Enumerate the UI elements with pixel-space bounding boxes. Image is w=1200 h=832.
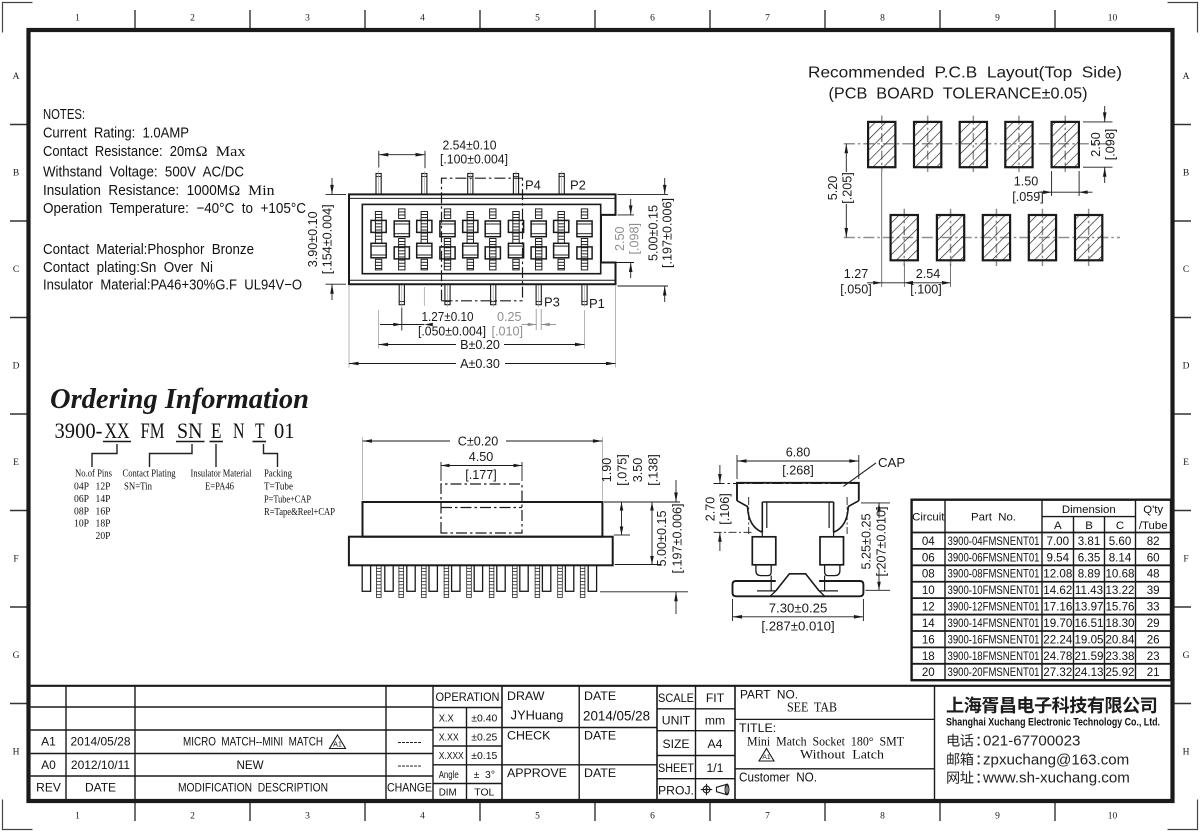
- svg-text:SN: SN: [177, 418, 203, 443]
- body wall lines: [350, 197, 615, 199]
- svg-text:[.268]: [.268]: [782, 463, 814, 477]
- svg-text:[.075]: [.075]: [616, 454, 630, 486]
- svg-text:3.50: 3.50: [631, 458, 645, 483]
- svg-text:3: 3: [305, 14, 310, 24]
- svg-text:A1: A1: [762, 754, 771, 761]
- part number code line: [55, 418, 295, 443]
- svg-text:9: 9: [995, 14, 1000, 24]
- svg-text:[.050±0.004]: [.050±0.004]: [418, 324, 486, 338]
- svg-text:04P: 04P: [74, 481, 89, 493]
- svg-text:C: C: [13, 265, 19, 275]
- svg-text:6: 6: [650, 14, 655, 24]
- underlines under XX SN E T: [103, 441, 131, 443]
- svg-text:[.059]: [.059]: [1012, 190, 1044, 204]
- svg-text:2014/05/28: 2014/05/28: [583, 709, 650, 724]
- svg-text:X.X: X.X: [439, 714, 454, 725]
- svg-text:13.97: 13.97: [1074, 601, 1103, 614]
- svg-text:[.197±0.006]: [.197±0.006]: [671, 504, 685, 574]
- svg-text:NOTES:: NOTES:: [43, 107, 85, 123]
- svg-text:16P: 16P: [96, 505, 111, 517]
- svg-text:12: 12: [922, 601, 935, 614]
- svg-text:Recommended P.C.B Layout(Top: Recommended P.C.B Layout(Top Side): [808, 65, 1122, 82]
- svg-text:1.50: 1.50: [1014, 175, 1039, 189]
- svg-text:2.50: 2.50: [613, 226, 627, 251]
- svg-text:33: 33: [1147, 601, 1160, 614]
- svg-text:17.16: 17.16: [1043, 601, 1072, 614]
- svg-text:SEE TAB: SEE TAB: [787, 700, 837, 715]
- front view lower base: [349, 537, 613, 566]
- svg-text:PROJ.: PROJ.: [658, 784, 694, 798]
- svg-text:C±0.20: C±0.20: [458, 434, 499, 448]
- dim 1.50 pad width: [1051, 171, 1053, 196]
- table horizontals: [1042, 516, 1136, 518]
- svg-text:[.098]: [.098]: [628, 223, 642, 255]
- contact lines: [948, 734, 960, 747]
- svg-text:3900-06FMSNENT01: 3900-06FMSNENT01: [948, 551, 1040, 564]
- dim 1.27 (bottom pin offset): [401, 308, 403, 331]
- svg-text:[.010]: [.010]: [492, 324, 524, 338]
- dim 1.90 / 3.50 (right of front view): [604, 501, 680, 503]
- svg-text:------: ------: [398, 735, 422, 749]
- contact columns: ladder pins, cross boxes and spool boxes: [371, 212, 386, 270]
- svg-text:9: 9: [995, 812, 1000, 822]
- svg-text:Insulation Resistance: 1000M: Insulation Resistance: 1000M: [43, 183, 228, 199]
- svg-text:10: 10: [1108, 812, 1118, 822]
- svg-text:DIM: DIM: [439, 788, 457, 799]
- cap centerline dash-dot: [714, 483, 859, 485]
- svg-text:23: 23: [1147, 650, 1160, 663]
- dim 2.54 pad pitch: [950, 264, 952, 287]
- dim 5.00 (right, overall body height): [618, 193, 669, 195]
- leader lines from code to legend: [92, 444, 117, 467]
- svg-text:08P: 08P: [74, 505, 89, 517]
- svg-text:[.207±0.010]: [.207±0.010]: [875, 507, 889, 577]
- svg-text:G: G: [1183, 651, 1190, 661]
- svg-text:3.90±0.10: 3.90±0.10: [306, 211, 320, 267]
- svg-text:CHECK: CHECK: [507, 729, 551, 743]
- svg-text:Contact Material:Phosphor Br: Contact Material:Phosphor Bronze: [43, 242, 254, 258]
- svg-text:12.08: 12.08: [1043, 568, 1072, 581]
- svg-text:No.of Pins: No.of Pins: [75, 468, 112, 480]
- svg-text:Without Latch: Without Latch: [800, 747, 885, 762]
- front view upper body: [363, 502, 603, 537]
- svg-text:021-67700023: 021-67700023: [983, 733, 1080, 750]
- svg-text:3900-14FMSNENT01: 3900-14FMSNENT01: [948, 617, 1040, 630]
- svg-text:CAP: CAP: [878, 455, 905, 470]
- svg-text:X.XXX: X.XXX: [439, 751, 464, 762]
- dim 2.70: [714, 531, 754, 533]
- svg-text:11.43: 11.43: [1075, 584, 1103, 597]
- svg-text:F: F: [13, 555, 18, 565]
- svg-text:82: 82: [1147, 535, 1160, 548]
- svg-text:8.89: 8.89: [1078, 568, 1101, 581]
- svg-text:27.32: 27.32: [1043, 666, 1072, 679]
- svg-text:T=Tube: T=Tube: [264, 481, 293, 493]
- svg-text:Contact Plating: Contact Plating: [123, 468, 176, 480]
- svg-text:Q'ty: Q'ty: [1143, 504, 1163, 516]
- svg-text:6.80: 6.80: [786, 445, 811, 459]
- svg-text:P2: P2: [570, 178, 586, 193]
- svg-text:SN=Tin: SN=Tin: [124, 481, 152, 493]
- svg-text:3900-20FMSNENT01: 3900-20FMSNENT01: [948, 666, 1040, 679]
- svg-text:E: E: [211, 418, 222, 443]
- svg-text:22.24: 22.24: [1043, 633, 1073, 646]
- svg-text:A4: A4: [708, 737, 723, 751]
- svg-text:7: 7: [765, 812, 770, 822]
- svg-text:Packing: Packing: [264, 468, 292, 480]
- svg-text:G: G: [13, 651, 20, 661]
- svg-text:mm: mm: [705, 714, 725, 728]
- svg-text:12P: 12P: [96, 481, 111, 493]
- svg-text:FIT: FIT: [706, 691, 725, 705]
- svg-text:B±0.20: B±0.20: [460, 338, 500, 352]
- svg-text:8: 8: [880, 812, 885, 822]
- svg-text:3900-18FMSNENT01: 3900-18FMSNENT01: [948, 650, 1040, 663]
- svg-text:T: T: [255, 418, 265, 443]
- svg-text:21.59: 21.59: [1074, 650, 1103, 663]
- svg-text:CHANGE: CHANGE: [387, 782, 432, 795]
- svg-text:16: 16: [922, 633, 935, 646]
- svg-text:[.138]: [.138]: [647, 454, 661, 486]
- contact tails to base: [770, 576, 772, 591]
- table verticals: [944, 500, 946, 681]
- socket beams: [761, 502, 763, 532]
- svg-text:20: 20: [922, 666, 935, 679]
- svg-text:FM: FM: [141, 418, 165, 443]
- grid tick marks top/bottom: [134, 10, 136, 28]
- svg-text:Withstand Voltage: 500V AC/: Withstand Voltage: 500V AC/DC: [43, 165, 244, 181]
- svg-text:[.177]: [.177]: [465, 468, 497, 482]
- svg-text:1/1: 1/1: [707, 761, 724, 775]
- svg-text:Contact Resistance: 20m: Contact Resistance: 20m: [43, 144, 195, 160]
- svg-text:/Tube: /Tube: [1139, 520, 1168, 532]
- svg-text:Ω Min: Ω Min: [229, 183, 276, 199]
- svg-text:2.54±0.10: 2.54±0.10: [443, 139, 497, 153]
- svg-text:Insulator Material:PA46+30%G.: Insulator Material:PA46+30%G.F UL94V−O: [43, 278, 302, 294]
- svg-text:3900-12FMSNENT01: 3900-12FMSNENT01: [948, 601, 1040, 614]
- row centerlines: [366, 226, 597, 228]
- svg-text:±0.15: ±0.15: [471, 751, 497, 762]
- svg-text:[.197±0.006]: [.197±0.006]: [661, 198, 675, 268]
- dim 5.25: [861, 502, 890, 504]
- hatched pads top row: [881, 116, 883, 172]
- svg-text:C: C: [1116, 520, 1124, 532]
- svg-text:DATE: DATE: [85, 781, 116, 795]
- svg-text:[.154±0.004]: [.154±0.004]: [321, 204, 335, 274]
- dim 5.20 row spacing: [845, 144, 847, 172]
- ear centerlines dash-dot: [748, 497, 750, 534]
- svg-text:D: D: [13, 362, 20, 372]
- svg-text:H: H: [1183, 748, 1190, 758]
- svg-text:1: 1: [75, 812, 80, 822]
- svg-text:Contact plating:Sn Over Ni: Contact plating:Sn Over Ni: [43, 260, 213, 276]
- bottom pad row centerline: [844, 237, 1120, 239]
- column centerlines (thin): [378, 206, 380, 273]
- dim 2.50 pad height (right): [1083, 121, 1113, 123]
- svg-text:19.05: 19.05: [1074, 633, 1103, 646]
- svg-text:2.54: 2.54: [916, 267, 941, 281]
- svg-text:18.30: 18.30: [1105, 617, 1134, 630]
- svg-text:21: 21: [1147, 666, 1160, 679]
- svg-text:B: B: [1183, 169, 1189, 179]
- svg-text:14: 14: [922, 617, 935, 630]
- svg-text:P=Tube+CAP: P=Tube+CAP: [264, 493, 311, 505]
- svg-text:2: 2: [190, 812, 195, 822]
- svg-text:X.XX: X.XX: [439, 733, 459, 744]
- svg-text:[.050]: [.050]: [840, 282, 872, 296]
- hatched pads bottom row: [903, 209, 905, 266]
- svg-text:3900-08FMSNENT01: 3900-08FMSNENT01: [948, 568, 1040, 581]
- svg-text:UNIT: UNIT: [662, 714, 691, 728]
- revision table: [65, 686, 67, 800]
- svg-text:5.60: 5.60: [1109, 535, 1132, 548]
- svg-text:A: A: [1183, 72, 1190, 82]
- inner cavity rectangle: [362, 204, 600, 273]
- svg-text:Customer NO.: Customer NO.: [739, 771, 817, 785]
- center post trapezoid: [776, 574, 819, 591]
- svg-text:06P: 06P: [74, 493, 89, 505]
- svg-text:24.13: 24.13: [1074, 666, 1103, 679]
- svg-text:E=PA46: E=PA46: [205, 481, 234, 493]
- notes text block: [43, 107, 306, 294]
- svg-text:0.25: 0.25: [497, 310, 522, 324]
- svg-text:8.14: 8.14: [1109, 551, 1132, 564]
- svg-text:[.098]: [.098]: [1104, 129, 1118, 161]
- svg-text:N: N: [233, 418, 245, 443]
- company block: [934, 686, 936, 800]
- svg-text:10: 10: [922, 584, 935, 597]
- svg-text:3.81: 3.81: [1078, 535, 1101, 548]
- svg-text:P1: P1: [589, 296, 605, 311]
- svg-text:Ω Max: Ω Max: [196, 144, 247, 160]
- svg-text:zpxuchang@163.com: zpxuchang@163.com: [983, 751, 1129, 768]
- bottom solder pins (5): [399, 284, 404, 305]
- dim 3.90 (left, body height): [326, 193, 347, 195]
- svg-text:16.51: 16.51: [1074, 617, 1103, 630]
- svg-text:7.30±0.25: 7.30±0.25: [769, 600, 828, 615]
- svg-text:01: 01: [274, 418, 295, 443]
- svg-text:Current Rating: 1.0AMP: Current Rating: 1.0AMP: [43, 126, 189, 142]
- ordering legend text: [74, 468, 335, 543]
- svg-text:Insulator Material: Insulator Material: [191, 468, 252, 480]
- dim 6.80 cap width: [736, 455, 738, 479]
- svg-text:2014/05/28: 2014/05/28: [70, 735, 130, 749]
- cap lower chamfers and funnel: [737, 501, 762, 533]
- svg-text:DATE: DATE: [584, 689, 616, 703]
- svg-text:10P: 10P: [74, 518, 89, 530]
- revision triangle A1: [330, 735, 346, 749]
- connector body outline with right-side notch: [349, 194, 616, 284]
- svg-text:F: F: [1183, 555, 1188, 565]
- svg-text:9.54: 9.54: [1047, 551, 1070, 564]
- svg-text:8: 8: [880, 14, 885, 24]
- svg-text:DATE: DATE: [584, 766, 616, 780]
- cap outline: [737, 483, 859, 501]
- svg-text:5.00±0.15: 5.00±0.15: [647, 205, 661, 261]
- dim 2.50 (right notch, gray): [618, 214, 635, 216]
- svg-text:MODIFICATION DESCRIPTION: MODIFICATION DESCRIPTION: [178, 782, 328, 795]
- svg-text:4.50: 4.50: [469, 450, 494, 464]
- svg-text:3900-10FMSNENT01: 3900-10FMSNENT01: [948, 584, 1040, 597]
- svg-text:Shanghai Xuchang Electronic Te: Shanghai Xuchang Electronic Technology C…: [946, 717, 1160, 729]
- contact feet hooks: [756, 565, 771, 576]
- svg-text:TOL: TOL: [474, 788, 494, 799]
- svg-text:P4: P4: [525, 178, 541, 193]
- svg-text:20.84: 20.84: [1105, 633, 1135, 646]
- svg-text:SHEET: SHEET: [658, 761, 694, 775]
- draw/check/approve block: [501, 686, 503, 800]
- svg-text:04: 04: [922, 535, 935, 548]
- svg-text:D: D: [1183, 362, 1190, 372]
- svg-text:[.205]: [.205]: [841, 172, 855, 204]
- border corner marks: [3, 3, 33, 33]
- svg-text:5.25±0.25: 5.25±0.25: [860, 514, 874, 570]
- bottom plate: [733, 581, 864, 596]
- contact boxes: [752, 537, 776, 565]
- svg-text:Operation Temperature: −40°C: Operation Temperature: −40°C to +105°C: [43, 201, 306, 217]
- svg-text:2.50: 2.50: [1089, 132, 1103, 157]
- svg-text:[.100]: [.100]: [910, 282, 942, 296]
- svg-text:60: 60: [1147, 551, 1160, 564]
- svg-text:4: 4: [420, 14, 425, 24]
- dash-dot mating zone box: [441, 484, 522, 533]
- svg-text:A: A: [13, 72, 20, 82]
- svg-text:7: 7: [765, 14, 770, 24]
- svg-text:18P: 18P: [96, 518, 111, 530]
- svg-text:2012/10/11: 2012/10/11: [71, 758, 130, 772]
- tolerance (OPERATION) block: [466, 708, 468, 800]
- svg-text:SIZE: SIZE: [662, 737, 689, 751]
- svg-text:XX: XX: [105, 418, 130, 443]
- svg-text:NEW: NEW: [236, 759, 263, 772]
- svg-text:15.76: 15.76: [1105, 601, 1134, 614]
- svg-text:3900-16FMSNENT01: 3900-16FMSNENT01: [948, 633, 1040, 646]
- svg-text:Dimension: Dimension: [1062, 504, 1116, 516]
- svg-text:± 3°: ± 3°: [474, 770, 495, 781]
- svg-text:5: 5: [535, 14, 540, 24]
- svg-text:------: ------: [398, 758, 422, 772]
- svg-text:3900-: 3900-: [55, 418, 103, 443]
- svg-text:6: 6: [650, 812, 655, 822]
- svg-text:APPROVE: APPROVE: [507, 766, 567, 780]
- svg-text:MICRO MATCH--MINI MATCH: MICRO MATCH--MINI MATCH: [183, 736, 323, 749]
- svg-text:A: A: [1054, 520, 1062, 532]
- svg-text:1: 1: [75, 14, 80, 24]
- svg-text:[.100±0.004]: [.100±0.004]: [440, 153, 508, 167]
- scale/unit/size/sheet/proj block: [656, 686, 658, 800]
- dash-dot zone box (pins P1-P4 zone): [442, 178, 523, 301]
- svg-text:E: E: [1183, 458, 1189, 468]
- svg-text:H: H: [13, 748, 20, 758]
- grid tick marks left/right: [10, 124, 27, 126]
- dim 0.25 pin width (gray): [535, 309, 537, 330]
- svg-text:3: 3: [305, 812, 310, 822]
- svg-text:13.22: 13.22: [1105, 584, 1134, 597]
- svg-text:±0.25: ±0.25: [471, 733, 497, 744]
- company name (CJK glyph paths): [947, 697, 964, 713]
- svg-text:1.27: 1.27: [844, 267, 869, 281]
- svg-text:48: 48: [1147, 568, 1160, 581]
- cap leader line: [843, 463, 876, 487]
- svg-text:B: B: [1085, 520, 1093, 532]
- svg-text:1.90: 1.90: [600, 458, 614, 483]
- svg-text:10.68: 10.68: [1105, 568, 1134, 581]
- svg-text:OPERATION: OPERATION: [436, 690, 500, 704]
- dim B+-0.20: [378, 310, 380, 349]
- top solder pins (5): [376, 174, 381, 195]
- svg-text:P3: P3: [544, 295, 560, 310]
- dim 1.27 row offset: [881, 172, 883, 287]
- front view leads: flat pins and striped pins: [362, 565, 370, 591]
- svg-text:REV: REV: [36, 781, 61, 795]
- svg-text:5.20: 5.20: [826, 176, 840, 201]
- svg-text:14.62: 14.62: [1043, 584, 1072, 597]
- svg-text:1.27±0.10: 1.27±0.10: [422, 310, 474, 324]
- svg-text:www.sh-xuchang.com: www.sh-xuchang.com: [982, 770, 1130, 787]
- svg-text:23.38: 23.38: [1105, 650, 1134, 663]
- svg-text:5.00±0.15: 5.00±0.15: [655, 511, 669, 567]
- dim 7.30: [732, 599, 734, 621]
- svg-text:A0: A0: [41, 758, 56, 772]
- svg-text:7.00: 7.00: [1047, 535, 1070, 548]
- svg-text:2.70: 2.70: [704, 497, 718, 522]
- svg-text:(PCB BOARD TOLERANCE±0.05): (PCB BOARD TOLERANCE±0.05): [829, 85, 1088, 102]
- svg-text:[.287±0.010]: [.287±0.010]: [761, 618, 834, 633]
- svg-text:18: 18: [922, 650, 935, 663]
- projection symbol: circle-cross and cone: [701, 784, 729, 795]
- svg-text:3900-04FMSNENT01: 3900-04FMSNENT01: [948, 535, 1040, 548]
- svg-text:Circuit: Circuit: [912, 512, 945, 524]
- svg-text:10: 10: [1108, 14, 1118, 24]
- svg-text:B: B: [13, 169, 19, 179]
- svg-text:14P: 14P: [96, 493, 111, 505]
- svg-text:DRAW: DRAW: [507, 689, 545, 703]
- svg-text:±0.40: ±0.40: [471, 714, 497, 725]
- svg-text:06: 06: [922, 551, 935, 564]
- svg-text:Part No.: Part No.: [971, 512, 1016, 524]
- svg-text:SCALE: SCALE: [658, 691, 694, 705]
- svg-text:39: 39: [1147, 584, 1160, 597]
- svg-text:JYHuang: JYHuang: [511, 708, 564, 723]
- svg-text:C: C: [1183, 265, 1189, 275]
- svg-text:24.78: 24.78: [1043, 650, 1072, 663]
- svg-text:6.35: 6.35: [1078, 551, 1101, 564]
- svg-text:08: 08: [922, 568, 935, 581]
- dim 5.00 (front view overall height): [600, 591, 688, 593]
- dim A+-0.30: [348, 286, 350, 368]
- top pad row centerline: [844, 143, 1113, 145]
- dim C+-0.20: [362, 437, 364, 500]
- dim 2.54 +-0.10 (top pin pitch): [378, 151, 380, 168]
- svg-text:A±0.30: A±0.30: [460, 357, 500, 371]
- svg-text:4: 4: [420, 812, 425, 822]
- svg-text:26: 26: [1147, 633, 1160, 646]
- svg-text:5: 5: [535, 812, 540, 822]
- svg-text:A1: A1: [333, 740, 342, 749]
- svg-text:[.106]: [.106]: [718, 493, 732, 525]
- svg-text:20P: 20P: [96, 530, 111, 542]
- svg-text:19.70: 19.70: [1043, 617, 1072, 630]
- svg-text:R=Tape&Reel+CAP: R=Tape&Reel+CAP: [264, 506, 335, 518]
- svg-text:A1: A1: [41, 735, 56, 749]
- svg-text:2: 2: [190, 14, 195, 24]
- svg-text:E: E: [13, 458, 19, 468]
- svg-text:DATE: DATE: [584, 729, 616, 743]
- svg-text:Angle: Angle: [439, 770, 459, 781]
- dim 4.50: [440, 462, 442, 481]
- svg-text:25.92: 25.92: [1105, 666, 1134, 679]
- svg-text:Ordering Information: Ordering Information: [50, 383, 309, 415]
